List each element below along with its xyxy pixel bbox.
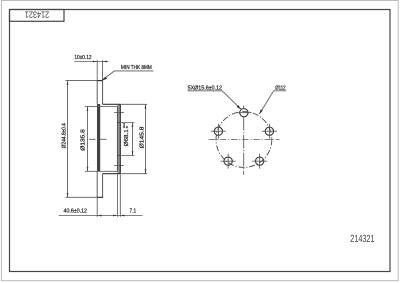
horizontal centerline [209,139,280,141]
svg-text:Ø244.8±0.4: Ø244.8±0.4 [61,123,68,148]
dimension 10±0.12 [74,60,108,80]
ring right face lower [102,174,104,198]
hat outer top surface [103,103,121,105]
bolt hole 2 (upper right) [262,124,277,139]
leader for 5XØ15.6±0.12 [188,90,223,92]
bolt hole 3 (lower right) [252,154,267,169]
vertical centerline [243,117,245,175]
ring right face upper [102,81,104,105]
centerline section axis [89,138,107,140]
bolt hole 4 (lower left) [221,154,236,169]
ring section cut band [97,104,100,171]
leader for Ø112 [274,90,287,92]
svg-text:Ø68.1: Ø68.1 [123,129,130,146]
svg-text:Ø112: Ø112 [275,84,285,91]
dimension Ø68.1 with tolerance [118,123,135,156]
bolt hole axis bottom [114,165,124,167]
ring top edge [97,80,103,82]
dimension Ø244.8±0.4 [65,81,96,198]
dimension Ø135.8 [85,107,97,172]
ring left face upper [96,81,98,105]
bolt circle Ø112 [216,112,272,168]
bore edge bottom [117,155,120,157]
vertical centerline stub above top hole [243,106,245,109]
bolt hole axis top [114,112,124,114]
svg-text:40.6±0.12: 40.6±0.12 [64,208,88,215]
bore edge top [117,122,120,124]
svg-text:214321: 214321 [350,234,374,245]
svg-text:Ø135.8: Ø135.8 [79,129,86,151]
svg-text:7.1: 7.1 [130,209,137,215]
svg-text:MIN THK 8MM: MIN THK 8MM [121,64,152,71]
svg-text:10±0.12: 10±0.12 [74,54,91,61]
svg-text:214321: 214321 [25,10,49,21]
flange pocket face [116,107,118,172]
hat inner bottom surface [97,170,117,172]
dimension 40.6±0.12 and 7.1 [59,174,143,217]
ring left face lower [96,172,98,198]
bolt hole 1 (top) [236,112,251,114]
hat inner top surface [97,106,117,108]
bolt hole 5 (upper left) [211,124,226,139]
svg-text:Ø145.8: Ø145.8 [138,127,145,149]
dimension Ø145.8 [120,104,147,173]
flange end face [119,104,121,173]
title text 214321 (rotated 180) [25,10,49,21]
svg-text:5XØ15.6±0.12: 5XØ15.6±0.12 [188,84,222,91]
ring bottom edge [97,196,103,198]
title box [10,10,65,22]
flange section cut band [117,104,120,173]
hat outer bottom surface [103,173,121,175]
